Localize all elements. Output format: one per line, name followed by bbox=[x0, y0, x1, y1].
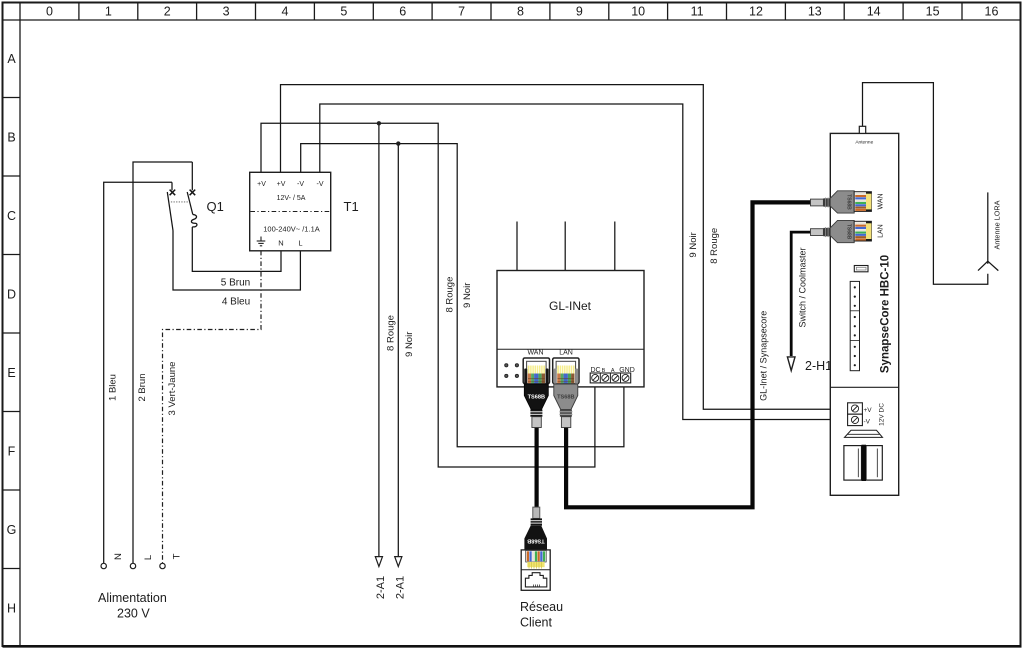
svg-text:E: E bbox=[7, 366, 15, 380]
svg-text:LAN: LAN bbox=[559, 350, 573, 357]
svg-text:GL-Inet / Synapsecore: GL-Inet / Synapsecore bbox=[758, 311, 768, 401]
svg-text:LAN: LAN bbox=[878, 224, 885, 238]
svg-text:Antenne LORA: Antenne LORA bbox=[993, 200, 1002, 249]
svg-text:9 Noir: 9 Noir bbox=[688, 232, 699, 257]
svg-text:8 Rouge: 8 Rouge bbox=[445, 277, 456, 313]
svg-text:TS68B: TS68B bbox=[846, 224, 852, 240]
svg-text:G: G bbox=[7, 523, 17, 537]
svg-text:Antenne: Antenne bbox=[855, 140, 873, 146]
svg-text:GND: GND bbox=[619, 367, 635, 374]
svg-text:DC: DC bbox=[590, 367, 600, 374]
svg-text:Client: Client bbox=[520, 616, 552, 630]
svg-text:T1: T1 bbox=[344, 199, 359, 214]
svg-text:WAN: WAN bbox=[527, 350, 543, 357]
svg-text:1 Bleu: 1 Bleu bbox=[108, 374, 119, 401]
svg-text:A: A bbox=[611, 368, 615, 374]
svg-text:Switch / Coolmaster: Switch / Coolmaster bbox=[798, 247, 808, 327]
svg-text:2-A1: 2-A1 bbox=[375, 576, 387, 599]
svg-text:L: L bbox=[143, 555, 154, 560]
svg-text:L: L bbox=[298, 239, 302, 248]
svg-text:TS68B: TS68B bbox=[527, 538, 544, 544]
svg-text:4 Bleu: 4 Bleu bbox=[222, 297, 250, 308]
svg-text:15: 15 bbox=[926, 5, 940, 19]
svg-text:-V: -V bbox=[317, 181, 324, 188]
svg-text:GL-INet: GL-INet bbox=[549, 299, 592, 313]
svg-text:C: C bbox=[7, 209, 16, 223]
svg-text:-V: -V bbox=[864, 419, 871, 426]
svg-text:1: 1 bbox=[105, 5, 112, 19]
svg-text:TS68B: TS68B bbox=[528, 394, 545, 400]
svg-text:A: A bbox=[7, 52, 16, 66]
svg-text:2: 2 bbox=[164, 5, 171, 19]
svg-text:12V- / 5A: 12V- / 5A bbox=[277, 195, 306, 202]
svg-text:+V: +V bbox=[257, 181, 266, 188]
svg-text:+V: +V bbox=[277, 181, 286, 188]
svg-text:N: N bbox=[113, 553, 124, 560]
svg-text:10: 10 bbox=[631, 5, 645, 19]
svg-text:B: B bbox=[602, 368, 606, 374]
svg-text:-V: -V bbox=[297, 181, 304, 188]
svg-text:3: 3 bbox=[223, 5, 230, 19]
svg-text:9 Noir: 9 Noir bbox=[404, 332, 415, 357]
svg-text:8: 8 bbox=[517, 5, 524, 19]
svg-text:12V DC: 12V DC bbox=[879, 403, 886, 426]
svg-text:5: 5 bbox=[340, 5, 347, 19]
svg-text:6: 6 bbox=[399, 5, 406, 19]
svg-text:2-A1: 2-A1 bbox=[394, 576, 406, 599]
svg-text:13: 13 bbox=[808, 5, 822, 19]
svg-text:8 Rouge: 8 Rouge bbox=[386, 315, 397, 351]
svg-text:4: 4 bbox=[282, 5, 289, 19]
svg-text:8 Rouge: 8 Rouge bbox=[709, 228, 720, 264]
svg-text:Alimentation: Alimentation bbox=[98, 591, 167, 605]
svg-text:9 Noir: 9 Noir bbox=[462, 283, 473, 308]
svg-text:9: 9 bbox=[576, 5, 583, 19]
svg-text:SynapseCore HBC-10: SynapseCore HBC-10 bbox=[879, 255, 891, 373]
svg-text:230 V: 230 V bbox=[117, 607, 150, 621]
svg-text:WAN: WAN bbox=[878, 193, 885, 209]
svg-text:H: H bbox=[7, 602, 16, 616]
svg-text:TS68B: TS68B bbox=[846, 194, 852, 210]
svg-text:100-240V~ /1.1A: 100-240V~ /1.1A bbox=[263, 225, 320, 234]
svg-text:3 Vert-Jaune: 3 Vert-Jaune bbox=[167, 362, 178, 416]
svg-text:11: 11 bbox=[691, 5, 704, 19]
svg-text:N: N bbox=[278, 239, 283, 248]
svg-text:F: F bbox=[8, 445, 16, 459]
svg-text:Réseau: Réseau bbox=[520, 600, 563, 614]
svg-text:12: 12 bbox=[749, 5, 763, 19]
svg-text:2-H1: 2-H1 bbox=[805, 359, 832, 373]
svg-text:0: 0 bbox=[46, 5, 53, 19]
svg-text:B: B bbox=[7, 131, 15, 145]
svg-text:14: 14 bbox=[867, 5, 881, 19]
svg-text:TS68B: TS68B bbox=[557, 394, 574, 400]
svg-text:Q1: Q1 bbox=[207, 199, 224, 214]
svg-text:D: D bbox=[7, 288, 16, 302]
svg-text:7: 7 bbox=[458, 5, 465, 19]
svg-text:2 Brun: 2 Brun bbox=[137, 374, 148, 402]
svg-text:16: 16 bbox=[985, 5, 999, 19]
svg-text:5 Brun: 5 Brun bbox=[221, 278, 250, 289]
svg-text:T: T bbox=[172, 553, 183, 559]
svg-text:+V: +V bbox=[864, 407, 873, 414]
